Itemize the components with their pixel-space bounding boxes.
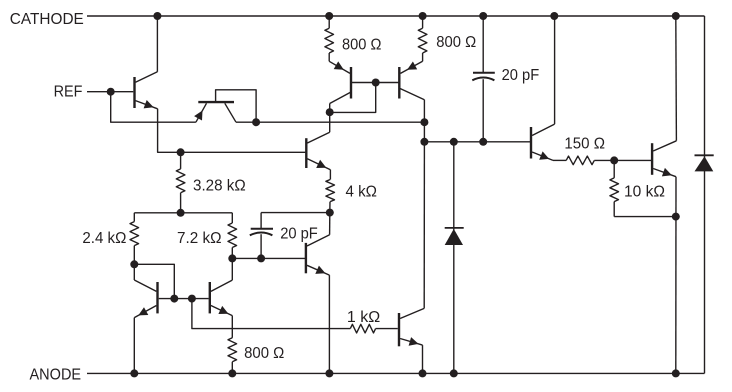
wire Q6 emitter to anode [328, 275, 330, 373]
label R6 4k [346, 183, 378, 200]
node R5 bottom [228, 254, 236, 262]
node Q7E anode [130, 369, 138, 377]
label C1 20pF [502, 67, 540, 84]
node cathode-C1 [479, 12, 487, 20]
svg-text:2.4 kΩ: 2.4 kΩ [82, 230, 126, 247]
node REF pin label [54, 84, 83, 101]
wire Q9 emitter [422, 345, 424, 373]
wire R3 bottom rail [134, 212, 232, 214]
resistor R5 7.2k [228, 213, 237, 259]
node Q11E anode [672, 369, 680, 377]
label R8 1k [347, 309, 380, 326]
node R3 bottom [177, 209, 185, 217]
node R6-C2 junction [326, 209, 334, 217]
label R10 10k [624, 184, 665, 201]
resistor R1 800 [325, 16, 334, 61]
svg-text:800 Ω: 800 Ω [436, 34, 476, 51]
resistor R10 10k [610, 160, 619, 216]
wire REF to Q2 emitter [111, 92, 196, 123]
svg-text:10 kΩ: 10 kΩ [624, 184, 665, 201]
wire REF lead [87, 91, 133, 93]
label R5 7.2k [177, 230, 222, 247]
label R3 3.28k [193, 177, 246, 194]
wire anode rail [87, 372, 705, 374]
node Q6E anode [325, 369, 333, 377]
transistor Q1 [135, 72, 158, 109]
svg-text:ANODE: ANODE [30, 367, 82, 384]
node C2 bottom junction [257, 254, 265, 262]
wire Q3 collector [329, 104, 331, 113]
capacitor C2 20pF [250, 213, 273, 259]
transistor Q7 [134, 280, 157, 318]
capacitor C1 20pF [472, 16, 495, 142]
diode D1 [445, 142, 464, 374]
node Q2 tie junction [252, 118, 260, 126]
node cathode-R1 [325, 12, 333, 20]
resistor R6 4k [326, 170, 335, 213]
wire mirror base tie [330, 83, 376, 113]
node cathode-R2 [419, 12, 427, 20]
node Q11 emitter junction [672, 213, 680, 221]
transistor Q9 [399, 308, 424, 346]
wire Q11 collector [675, 16, 678, 141]
node R7 anode [228, 369, 236, 377]
label R2 800 [436, 34, 476, 51]
wire R10 to emitter [614, 216, 676, 218]
wire to R8 [232, 328, 350, 330]
node cathode-Q1C [153, 12, 161, 20]
node cathode-Q10C [550, 12, 558, 20]
svg-text:150 Ω: 150 Ω [564, 135, 605, 152]
wire driver base rail [424, 141, 530, 143]
transistor Q11 [652, 141, 676, 177]
svg-text:3.28 kΩ: 3.28 kΩ [193, 177, 246, 194]
transistor Q3 [329, 61, 351, 103]
resistor R4 2.4k [130, 213, 139, 264]
wire base2 to emitter rail [192, 299, 232, 329]
wire Q8 emitter [231, 316, 233, 329]
transistor Q4 [399, 61, 424, 99]
node Q9E anode [419, 369, 427, 377]
wire C2 top link [261, 212, 330, 214]
svg-text:800 Ω: 800 Ω [244, 345, 284, 362]
wire Q2 base tie [216, 90, 257, 122]
wire Q5 collector to mirror [329, 112, 331, 132]
wire Q7 emitter to anode [133, 318, 135, 374]
label R4 2.4k [82, 230, 126, 247]
wire lower mirror base [159, 298, 209, 300]
wire Q10 collector [554, 16, 556, 124]
svg-text:CATHODE: CATHODE [10, 11, 84, 28]
svg-text:4 kΩ: 4 kΩ [346, 183, 378, 200]
node CATHODE pin label [10, 11, 84, 28]
wire Q2 collector to mirror [236, 121, 424, 123]
node cathode-Q11C [672, 12, 680, 20]
resistor R9 150 [566, 156, 594, 165]
svg-text:REF: REF [54, 84, 83, 101]
label C2 20pF [280, 226, 318, 243]
label R9 150 [564, 135, 605, 152]
node mirror collector junction [326, 108, 334, 116]
node mirror base junction [372, 79, 380, 87]
node main node A [420, 118, 428, 126]
wire Q1 collector to cathode [156, 16, 158, 72]
resistor R7 800 [228, 329, 237, 374]
wire second stage base [232, 257, 305, 259]
node base rail left [420, 138, 428, 146]
node D1 anode [450, 369, 458, 377]
wire mirror base [351, 82, 399, 84]
wire Q6 collector [329, 213, 331, 235]
svg-text:1 kΩ: 1 kΩ [347, 309, 380, 326]
svg-text:800 Ω: 800 Ω [342, 37, 381, 54]
wire Q7 collector tie [134, 264, 174, 298]
resistor R2 800 [418, 16, 427, 61]
node Q1E-R3 [177, 148, 185, 156]
transistor Q10 [531, 124, 555, 160]
svg-text:20 pF: 20 pF [502, 67, 540, 84]
node R9-R10 [610, 156, 618, 164]
transistor Q6 [306, 235, 330, 275]
node lower mirror base 1 [170, 295, 178, 303]
resistor R3 3.28k [176, 152, 185, 213]
node R4 bottom [130, 260, 138, 268]
svg-text:20 pF: 20 pF [280, 226, 318, 243]
svg-text:7.2 kΩ: 7.2 kΩ [177, 230, 222, 247]
label R7 800 [244, 345, 284, 362]
wire Q10 emitter [553, 159, 566, 161]
wire Q11 emitter [675, 177, 677, 374]
transistor Q2 [194, 102, 236, 122]
resistor R8 1k [350, 324, 375, 333]
diode D2 [695, 16, 714, 373]
wire R8 to Q12 base [376, 328, 398, 330]
wire Q4 collector [423, 100, 425, 123]
transistor Q5 [306, 132, 330, 170]
label R1 800 [342, 37, 381, 54]
wire Q1 emitter to base rail [158, 109, 306, 153]
wire R9 to node [594, 159, 651, 161]
node lower mirror base 2 [188, 295, 196, 303]
node REF junction [107, 88, 115, 96]
wire Q8 collector [231, 258, 233, 280]
node ANODE pin label [30, 367, 82, 384]
wire node A to base rail [423, 122, 425, 142]
node C1 bottom [479, 138, 487, 146]
wire cathode rail [87, 15, 705, 17]
wire Q9 collector [423, 142, 425, 309]
node D1 top [450, 138, 458, 146]
transistor Q8 [210, 280, 233, 316]
